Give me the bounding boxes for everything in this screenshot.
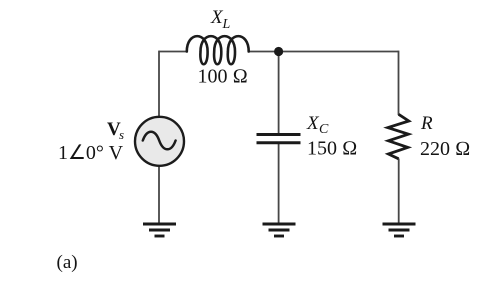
svg-text:(a): (a) bbox=[57, 252, 78, 273]
svg-text:L: L bbox=[222, 17, 231, 32]
svg-text:X: X bbox=[306, 113, 320, 134]
svg-text:1∠0° V: 1∠0° V bbox=[58, 142, 124, 164]
svg-text:C: C bbox=[319, 122, 329, 137]
svg-text:R: R bbox=[420, 113, 433, 134]
svg-text:220 Ω: 220 Ω bbox=[420, 138, 470, 160]
svg-text:150 Ω: 150 Ω bbox=[307, 138, 357, 160]
svg-text:100 Ω: 100 Ω bbox=[198, 66, 248, 88]
svg-text:s: s bbox=[119, 127, 124, 142]
